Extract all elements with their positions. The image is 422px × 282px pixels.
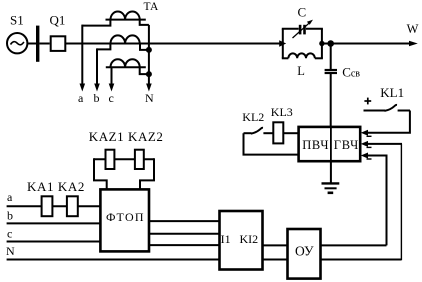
relay coil KA1 bbox=[42, 196, 53, 216]
svg-text:a: a bbox=[78, 91, 84, 105]
inductor L bbox=[288, 53, 314, 58]
wire I1KI2 to OU upper bbox=[263, 244, 288, 246]
arrow a bbox=[80, 84, 86, 92]
wire OU out lower bbox=[321, 259, 402, 261]
bus line N bbox=[7, 259, 220, 261]
wire phase b drop bbox=[96, 48, 98, 85]
svg-text:KL2: KL2 bbox=[242, 110, 264, 124]
svg-text:ФТОП: ФТОП bbox=[106, 210, 145, 224]
node dot at CT-c tap bbox=[146, 71, 152, 77]
node dot Ccv tap bbox=[327, 40, 334, 47]
CT TA phase a winding bbox=[106, 12, 146, 20]
switch KL2 bbox=[244, 128, 274, 134]
box I1 KI2 bbox=[220, 211, 263, 270]
capacitor C plates bbox=[300, 25, 304, 35]
svg-text:ОУ: ОУ bbox=[295, 243, 314, 258]
bus line a bbox=[7, 205, 101, 207]
source S1 bbox=[7, 33, 27, 53]
divider PVC/GVC bbox=[330, 127, 332, 161]
arrow into GVC pin1 bbox=[361, 130, 372, 137]
svg-text:b: b bbox=[7, 209, 13, 223]
wire CT-b right lead bbox=[140, 44, 149, 50]
main line Q1 to LC tank bbox=[66, 43, 283, 45]
wire Ccv vertical upper bbox=[330, 44, 332, 70]
busbar bbox=[36, 26, 39, 62]
wire busbar to Q1 bbox=[39, 43, 49, 45]
capacitor Ccv bbox=[325, 70, 337, 73]
LC tank loop bbox=[282, 29, 323, 59]
variable capacitor arrow bbox=[293, 20, 314, 38]
wire S1 to busbar bbox=[27, 43, 36, 45]
svg-text:I1: I1 bbox=[221, 232, 231, 246]
svg-text:c: c bbox=[109, 91, 114, 105]
relay coil KL3 bbox=[273, 122, 283, 143]
relay coil KAZ2 bbox=[135, 150, 144, 169]
svg-text:a: a bbox=[7, 190, 13, 204]
breaker Q1 bbox=[51, 36, 66, 51]
arrow into GVC pin3 bbox=[361, 153, 372, 160]
wire GVC pin2 to x401 vertical bbox=[367, 143, 402, 145]
arrow N bbox=[146, 84, 152, 92]
node dot tank right bbox=[319, 41, 324, 46]
relay coil KAZ1 bbox=[106, 150, 115, 169]
CT TA phase c winding bbox=[106, 59, 146, 67]
wire OU out upper bbox=[321, 244, 387, 246]
svg-text:W: W bbox=[407, 22, 419, 36]
box FTOP bbox=[100, 189, 149, 251]
wire FTOP out 3 bbox=[149, 244, 220, 246]
svg-text:ПВЧ: ПВЧ bbox=[302, 138, 329, 152]
wire FTOP out 1 bbox=[149, 220, 220, 222]
svg-text:ГВЧ: ГВЧ bbox=[334, 138, 359, 152]
arrow c bbox=[109, 84, 115, 92]
wire CT-a right lead bbox=[140, 20, 149, 25]
svg-text:N: N bbox=[145, 91, 154, 105]
wire box to ground bbox=[330, 161, 332, 183]
ground bbox=[322, 183, 340, 192]
wire CT-a left lead bbox=[82, 20, 110, 26]
wire CT-c right lead bbox=[140, 67, 149, 74]
bus line b bbox=[7, 222, 101, 224]
svg-text:L: L bbox=[297, 64, 305, 78]
svg-text:KL1: KL1 bbox=[380, 85, 404, 100]
wire KL1 to PVC input 1 bbox=[367, 111, 410, 133]
wire FTOP out 2 bbox=[149, 233, 220, 235]
wire I1KI2 to OU lower bbox=[263, 259, 288, 261]
wire KAZ left step bbox=[94, 158, 107, 189]
relay coil KA2 bbox=[67, 196, 78, 216]
wire KL2 loop bottom bbox=[244, 133, 300, 154]
wire phase a drop bbox=[81, 25, 83, 85]
box PVC/GVC bbox=[299, 127, 361, 161]
switch KL1 bbox=[364, 105, 411, 111]
wire phase c drop bbox=[111, 67, 113, 85]
svg-text:S1: S1 bbox=[10, 13, 24, 28]
svg-text:KAZ1 KAZ2: KAZ1 KAZ2 bbox=[89, 129, 164, 144]
svg-text:KI2: KI2 bbox=[240, 232, 259, 246]
bus line c bbox=[7, 241, 101, 243]
main line to W bbox=[322, 43, 414, 45]
wire N vertical bbox=[148, 25, 150, 85]
box OU bbox=[288, 229, 321, 279]
wire GVC pin3 to x386 vertical bbox=[367, 156, 387, 246]
wire KL3 to PVC box bbox=[283, 132, 299, 134]
wire CT-b left lead bbox=[97, 44, 110, 50]
svg-text:c: c bbox=[7, 227, 12, 241]
wire KAZ horizontal bbox=[94, 158, 154, 160]
wire KAZ right step bbox=[140, 158, 154, 189]
node dot at main line tap bbox=[146, 47, 152, 53]
svg-text:KL3: KL3 bbox=[271, 105, 293, 119]
svg-text:KA1 KA2: KA1 KA2 bbox=[27, 179, 85, 194]
arrow b bbox=[94, 84, 100, 92]
arrow into GVC pin2 bbox=[361, 141, 372, 148]
CT TA phase b winding bbox=[111, 35, 140, 43]
svg-text:N: N bbox=[6, 244, 15, 258]
svg-text:С: С bbox=[298, 5, 307, 20]
node triangle at LC tank left bbox=[279, 40, 286, 47]
arrow W bbox=[409, 41, 418, 46]
svg-text:Q1: Q1 bbox=[50, 13, 66, 28]
svg-text:ТА: ТА bbox=[144, 1, 159, 13]
svg-text:b: b bbox=[94, 91, 100, 105]
wire Ccv to PVC box bbox=[330, 74, 332, 127]
label + bbox=[364, 98, 371, 105]
